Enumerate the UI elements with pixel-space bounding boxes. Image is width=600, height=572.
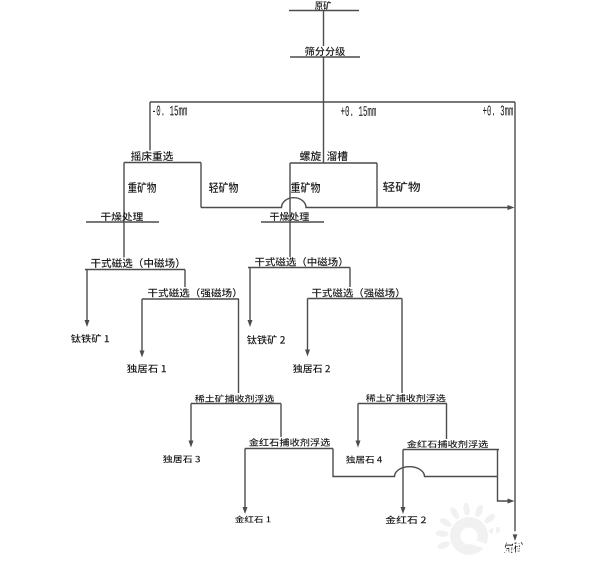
label raw-ore 原矿 — [315, 1, 331, 10]
wire →金红石1 — [244, 449, 246, 508]
label 干式磁选（中磁场） mid — [255, 257, 342, 267]
watermark letter-e ring — [450, 517, 488, 555]
label 重矿物 left — [128, 182, 156, 193]
label 干燥处理 mid — [270, 212, 309, 221]
wire under 筛分分级 — [290, 56, 360, 58]
arrowhead 独居石3 — [189, 441, 194, 448]
wire under 原矿 — [289, 10, 359, 12]
label 干式磁选（中磁场） left — [91, 258, 179, 268]
wire 筛分分级→分配线 — [323, 57, 325, 102]
arrowhead tails join — [508, 499, 515, 504]
arrowhead 独居石1 — [140, 351, 145, 358]
label 轻矿物 mid — [383, 182, 420, 193]
label 干式磁选（强磁场） left — [148, 288, 236, 298]
wire 强磁场→独居石2 — [307, 299, 309, 350]
wire under 螺旋溜槽 — [290, 162, 377, 164]
wire under 稀土矿浮选 left — [191, 403, 281, 405]
arrowhead 钛铁矿2 — [248, 320, 253, 327]
label 溜槽 (chute) — [327, 151, 348, 161]
wire 金红石2 tail join — [498, 450, 510, 502]
watermark sun petals — [438, 516, 452, 528]
wire 稀土矿→金红石浮选 right — [446, 404, 448, 440]
label 钛铁矿 2 — [247, 335, 285, 345]
label 金红石 1 — [235, 516, 271, 524]
wire 强磁场→独居石1 — [141, 299, 143, 351]
wire under 中磁场 mid — [248, 267, 350, 269]
wire under 稀土矿浮选 right — [358, 403, 447, 405]
arrowhead collect into +0.3mm line — [508, 205, 515, 210]
label 稀土矿捕收剂浮选 left — [195, 395, 274, 403]
wire under 摇床重选 — [124, 162, 201, 164]
wire under 中磁场 left — [85, 269, 185, 271]
label 摇床重选 — [131, 151, 173, 161]
label 金红石捕收剂浮选 2 — [407, 440, 488, 448]
wire 中磁场→钛铁矿1 — [86, 270, 88, 321]
wire under 强磁场 left — [142, 298, 239, 300]
label -0.15mm — [153, 106, 187, 116]
arrowhead 金红石1 — [243, 507, 248, 514]
wire 原矿→筛分分级 — [323, 11, 325, 47]
wire 中磁场→钛铁矿2 — [249, 268, 251, 321]
wire under 干燥处理 left — [86, 221, 159, 223]
wire +0.3mm down to 尾矿 — [514, 102, 516, 536]
arrowhead 钛铁矿1 — [85, 320, 90, 327]
wire 金红石1 tail with hop — [333, 449, 498, 477]
label 独居石 2 — [293, 364, 330, 373]
wire under 强磁场 mid — [308, 298, 403, 300]
wire 螺旋溜槽 heavy drop — [289, 163, 291, 257]
label 尾矿 (tailings) — [504, 542, 524, 553]
label 重矿物 mid — [291, 182, 320, 193]
arrowhead 金红石2 — [401, 507, 406, 514]
arrowhead into 尾矿 — [513, 534, 518, 541]
wire 强磁场→稀土矿浮选 left — [238, 299, 240, 393]
watermark text IN-EN (white, dims the +0.3mm line) — [493, 526, 547, 537]
label 独居石 1 — [127, 364, 166, 373]
wire 摇床重选 heavy drop — [123, 163, 125, 258]
wire 螺旋溜槽 light drop — [376, 163, 378, 208]
arrowhead 独居石4 — [356, 441, 361, 448]
wire split→摇床重选 — [149, 102, 151, 151]
arrowhead 独居石2 — [305, 350, 310, 357]
label 轻矿物 left — [209, 182, 238, 193]
label 干燥处理 left — [101, 212, 143, 221]
wire 中磁场→强磁场 mid — [349, 268, 351, 288]
wire 强磁场→稀土矿浮选 right — [401, 299, 403, 394]
label 干式磁选（强磁场） mid — [312, 288, 399, 298]
label 独居石 3 — [163, 455, 200, 463]
label 金红石捕收剂浮选 1 — [249, 438, 330, 447]
wire 中磁场→强磁场 left — [184, 270, 186, 288]
label 钛铁矿 1 — [71, 334, 109, 343]
watermark white dash over line — [510, 531, 521, 535]
wire under 金红石浮选 2 — [403, 449, 499, 451]
watermark text row2 (white, fragments 尾矿) — [487, 541, 557, 556]
wire light minerals collect with hop — [201, 198, 509, 208]
wire →独居石4 — [357, 404, 359, 441]
wire split→螺旋溜槽 — [323, 102, 325, 163]
wire under 干燥处理 mid — [261, 221, 324, 223]
label +0.15mm — [341, 106, 376, 116]
wire under 金红石浮选 1 — [245, 448, 333, 450]
label 金红石 2 — [386, 516, 427, 525]
label +0.3mm — [483, 106, 513, 116]
wire size-split horizontal — [150, 101, 515, 103]
label 筛分分级 — [305, 47, 345, 57]
label 螺旋 (spiral) — [300, 151, 321, 161]
wire →独居石3 — [190, 404, 192, 441]
label 稀土矿捕收剂浮选 right — [366, 394, 446, 402]
wire →金红石2 — [402, 450, 404, 508]
label 独居石 4 — [346, 456, 382, 464]
wire 稀土矿→金红石浮选 left — [280, 404, 282, 438]
wire 摇床重选 light drop — [200, 163, 202, 208]
